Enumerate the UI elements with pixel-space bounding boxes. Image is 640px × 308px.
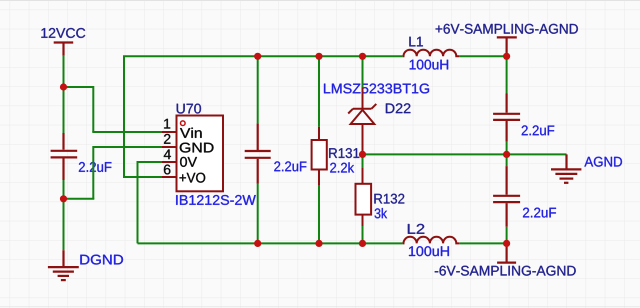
designator R131 (329, 148, 359, 158)
wire vertical to pin1 row (92, 86, 94, 132)
pin 1 Vin stub (162, 131, 177, 133)
wire horizontal to DGND node (64, 198, 95, 200)
junction node 12VCC/Vin (60, 83, 67, 90)
capacitor C 2.2uF middle (245, 123, 271, 183)
pin name Vin (180, 128, 202, 138)
net label +6V-SAMPLING-AGND (436, 24, 578, 34)
value label 2.2uF (C right-bottom) (523, 208, 556, 218)
capacitor C 2.2uF left (51, 133, 78, 180)
net label AGND (584, 157, 622, 167)
junction node top rail / R131 (315, 53, 322, 60)
pin number 6 (164, 165, 170, 175)
value label 2.2uF (C left) (79, 162, 111, 172)
diode D22 (zener) (348, 88, 376, 155)
designator D22 (386, 103, 410, 113)
wire pin4 vertical to bottom rail (137, 161, 139, 243)
junction node top rail / D22 (359, 53, 366, 60)
pin 1 indicator circle (181, 121, 186, 126)
capacitor C 2.2uF right-bottom (493, 166, 520, 227)
value label 2.2uF (C middle) (274, 161, 306, 171)
wire right column bottom cap to -6V node (506, 227, 508, 244)
pin number 4 (164, 149, 171, 159)
value label 3k (375, 208, 388, 218)
inductor L1 (403, 50, 460, 57)
wire AGND mid rail (363, 153, 567, 155)
pin number 1 (164, 119, 170, 129)
resistor R132 (356, 168, 372, 226)
wire pin4 0V row (138, 161, 163, 163)
wire bottom rail right of L2 (460, 242, 507, 244)
wire R131 top (318, 56, 320, 127)
net label DGND (80, 255, 123, 265)
pin number 2 (164, 134, 170, 144)
value label IB1212S-2W (176, 195, 256, 205)
value label LMSZ5233BT1G (D22) (324, 84, 429, 94)
value label 2.2uF (C right-top) (522, 125, 554, 135)
wire pin1 Vin row (92, 131, 162, 133)
pin name +VO (179, 173, 205, 183)
wire R132 bottom (362, 226, 364, 243)
value label 2.2k (330, 162, 354, 172)
wire pin6 vertical to top rail (123, 56, 125, 178)
junction node AGND rail / right caps (503, 151, 510, 158)
pin 2 GND stub (162, 146, 177, 148)
pin 4 0V stub (162, 161, 177, 163)
junction node D22/R132/AGND rail (359, 151, 366, 158)
power port +6V-SAMPLING-AGND (497, 37, 517, 56)
wire 12VCC branch to Vin (63, 86, 94, 88)
wire right column between cap and AGND node (506, 142, 508, 167)
net label 12VCC (41, 28, 85, 38)
junction node top rail / +6V (503, 53, 510, 60)
designator R132 (374, 194, 404, 204)
wire pin6 +VO row (124, 176, 162, 178)
wire bottom rail left of L2 (138, 242, 403, 244)
wire 12VCC vertical lower (63, 180, 65, 250)
designator U70 (177, 104, 201, 114)
pin 6 +VO stub (162, 176, 177, 178)
wire C mid bottom (257, 184, 259, 244)
pin name GND (180, 143, 214, 153)
pin name 0V (180, 157, 197, 167)
inductor L2 (403, 237, 460, 244)
wire D22 top (362, 56, 364, 87)
junction node bottom rail / -6V (503, 240, 510, 247)
IC U70 body (IB1212S-2W DC-DC module) (177, 116, 224, 192)
wire right column top (506, 56, 508, 93)
ground DGND symbol (48, 250, 79, 280)
resistor R131 (312, 127, 327, 185)
wire pin2 GND row (93, 146, 162, 148)
value label 100uH (L1) (410, 60, 448, 70)
junction node bottom rail / R132 (359, 240, 366, 247)
wire 12VCC vertical upper (63, 56, 65, 133)
wire C mid top (257, 56, 259, 123)
wire R131 bottom (318, 185, 320, 243)
wire top rail right of L1 (460, 55, 507, 57)
junction node top rail / C mid (254, 53, 261, 60)
capacitor C 2.2uF right-top (493, 94, 520, 142)
wire pin2 vertical down (92, 146, 94, 199)
junction node bottom rail / R131 (315, 240, 322, 247)
junction node bottom rail / C mid (254, 240, 261, 247)
designator L2 (408, 224, 424, 234)
ground AGND symbol (551, 154, 581, 182)
power port -6V-SAMPLING-AGND (497, 243, 516, 262)
designator L1 (409, 37, 422, 47)
net label -6V-SAMPLING-AGND (435, 266, 576, 276)
power port 12VCC (54, 43, 73, 56)
junction node DGND (60, 195, 67, 202)
wire D22 to AGND node (362, 154, 364, 168)
value label 100uH (L2) (409, 246, 449, 256)
wire top rail left of L1 (123, 55, 403, 57)
